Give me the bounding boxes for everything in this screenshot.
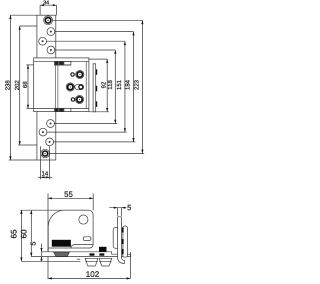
dim line 184 — [133, 32, 135, 142]
dim 34 top: line — [40, 5, 57, 15]
floor plate — [42, 252, 131, 257]
right carriage piece — [123, 226, 128, 257]
top edge extension (crossing lines) — [20, 209, 88, 211]
dim line 151 — [124, 41, 126, 132]
body inner divider line — [85, 61, 87, 108]
dim 102 — [130, 252, 132, 278]
knuckle top blocks — [54, 62, 71, 66]
wheels — [85, 258, 111, 266]
svg-text:14: 14 — [42, 170, 49, 177]
dim line 68 — [27, 65, 29, 109]
black pads right — [99, 247, 107, 252]
dim line 238 — [9, 15, 11, 160]
strip bumps — [96, 69, 98, 107]
svg-text:238: 238 — [4, 80, 11, 91]
extension lines right (hole centerlines) — [53, 19, 143, 21]
svg-text:5: 5 — [30, 242, 37, 246]
dim 5 left (floor plate thickness) — [41, 244, 43, 262]
hole c4 — [47, 46, 55, 54]
hole in body — [79, 215, 88, 224]
svg-text:223: 223 — [133, 79, 140, 90]
body inner top line — [34, 60, 89, 62]
body inner bottom line — [34, 107, 89, 109]
clamp block — [52, 240, 71, 247]
dim line 223 — [141, 20, 143, 153]
svg-text:92: 92 — [100, 81, 107, 88]
right assembly: strip (door plate) — [118, 217, 125, 264]
base inner contour line — [71, 245, 93, 248]
dim 34 arrows — [40, 4, 57, 6]
dim 14 bottom — [41, 146, 50, 179]
svg-text:184: 184 — [125, 79, 132, 90]
dim 55 — [48, 197, 93, 199]
small bracket left of wheel — [77, 258, 81, 260]
svg-text:68: 68 — [22, 81, 29, 88]
cap screws in body — [71, 73, 74, 76]
wedge under clamp — [54, 252, 70, 257]
dim 60 — [31, 210, 41, 256]
dim 5 right (door plate thickness) — [109, 207, 126, 209]
svg-text:151: 151 — [116, 79, 123, 90]
svg-text:60: 60 — [19, 229, 28, 239]
svg-text:55: 55 — [64, 190, 73, 199]
svg-text:102: 102 — [86, 270, 100, 279]
bottom plate holes — [47, 120, 55, 128]
dim line 118 — [114, 50, 116, 124]
carriage bumps — [122, 228, 124, 255]
obround slot — [75, 84, 84, 89]
body outline (L-bracket with big TL radius) — [48, 210, 93, 252]
hole c2 — [47, 28, 55, 36]
hole c3 — [39, 37, 47, 45]
body (middle block) — [34, 58, 89, 112]
dim 65 — [20, 210, 22, 261]
floor line left — [21, 260, 80, 262]
extension lines left — [10, 14, 37, 16]
svg-text:65: 65 — [10, 229, 19, 239]
bullseye hole top — [44, 16, 53, 25]
plate (tall back leaf) — [37, 15, 56, 160]
svg-text:118: 118 — [107, 80, 114, 90]
white tab left of strip — [113, 227, 117, 248]
leaf edge double line — [55, 65, 58, 109]
dim line 92 — [106, 59, 108, 112]
knuckle bottom blocks — [54, 108, 71, 111]
svg-text:5: 5 — [127, 203, 131, 212]
strip (leaf edge) right of body — [93, 64, 96, 112]
svg-text:202: 202 — [14, 80, 21, 91]
small rounded rect in body — [83, 237, 91, 241]
dim line 202 — [19, 26, 21, 145]
svg-text:34: 34 — [43, 0, 49, 6]
bullseye hole bottom — [41, 149, 50, 158]
